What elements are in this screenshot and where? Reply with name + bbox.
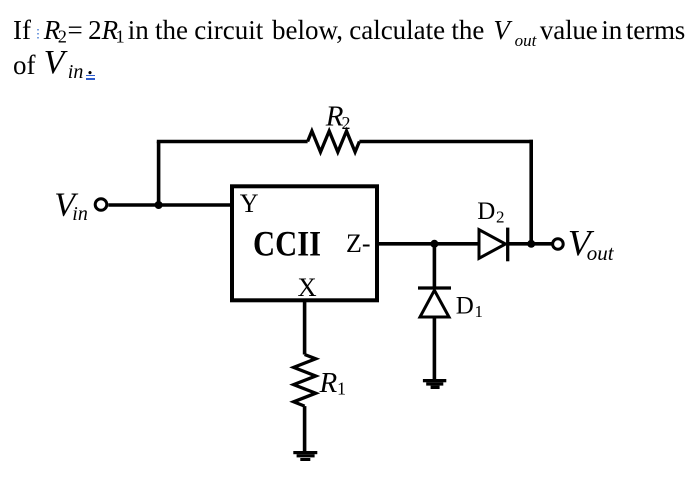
wire Z- output (377, 242, 479, 246)
node output junction (527, 240, 535, 248)
svg-text:1: 1 (475, 302, 484, 321)
svg-text:CCII: CCII (253, 224, 321, 264)
question text line 1: "If" (13, 15, 31, 45)
node Z junction (430, 240, 438, 248)
spell-check dotted mark (37, 29, 39, 39)
wire Vin to Y (108, 203, 232, 207)
wire D1 to ground (433, 317, 437, 380)
wire node to D1 (433, 244, 437, 288)
svg-text:Z-: Z- (346, 229, 371, 258)
wire junction up (157, 142, 161, 206)
phrase "in the circuit below, calculate the" (128, 15, 485, 45)
ground (D1) (423, 379, 446, 389)
period after Vin (87, 50, 94, 80)
node input junction (155, 201, 163, 209)
diode D1 (418, 288, 451, 317)
grammar double underline (blue) (86, 75, 96, 77)
svg-text:Y: Y (240, 189, 259, 218)
Vin in text (44, 48, 65, 78)
svg-text:X: X (298, 272, 317, 302)
wire R1 to ground (303, 406, 307, 452)
resistor R1 (294, 355, 316, 407)
svg-text:out: out (587, 241, 615, 265)
svg-text:1: 1 (337, 379, 346, 399)
ground (R1) (293, 451, 317, 461)
phrase "value in terms" (540, 15, 685, 45)
svg-text:R: R (319, 367, 338, 399)
op-amp-box U1 CCII (232, 186, 377, 300)
terminal Vout (553, 239, 564, 250)
wire X down (303, 300, 307, 355)
svg-text:D: D (456, 292, 474, 319)
Vout in text (493, 15, 510, 45)
terminal Vin (95, 199, 107, 211)
resistor R2 (308, 131, 360, 152)
wire R2 to corner (359, 140, 533, 144)
question text line 2: "of" (13, 50, 36, 80)
svg-text:2: 2 (496, 207, 505, 226)
wire D2 to Vout (508, 242, 553, 246)
wire top to R2 (157, 140, 308, 144)
equation R2 = 2R1 (44, 15, 125, 48)
svg-text:D: D (477, 198, 495, 225)
wire corner down to output node (529, 140, 533, 244)
diode D2 (479, 228, 508, 262)
svg-text:2: 2 (342, 113, 351, 133)
svg-text:in: in (72, 203, 88, 225)
